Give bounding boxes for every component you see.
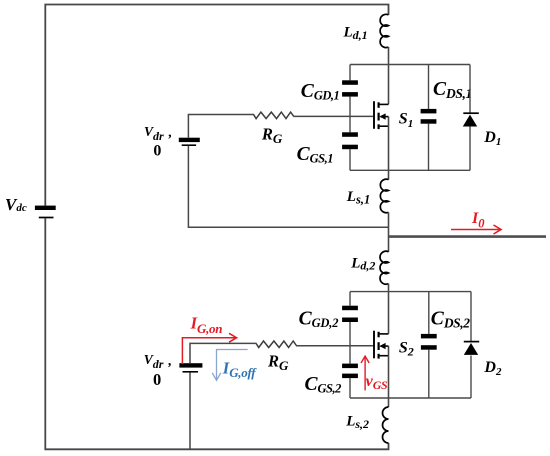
svg-text:IG,on: IG,on xyxy=(190,313,223,336)
svg-text:CGS,1: CGS,1 xyxy=(297,144,333,166)
wire: Vdr2 negative return to bottom rail xyxy=(189,373,191,450)
svg-text:’: ’ xyxy=(167,133,172,148)
svg-text:’: ’ xyxy=(167,361,172,376)
capacitor CDS,1 xyxy=(421,109,437,124)
svg-text:CDS,2: CDS,2 xyxy=(431,308,470,330)
resistor RG (upper) xyxy=(254,112,294,119)
wire: Ld,1 to S1 drain xyxy=(388,47,390,104)
gate driver source Vdr,0 (lower) xyxy=(179,363,202,372)
node: S1 cell bottom rail xyxy=(350,169,470,171)
capacitor CGD,2 xyxy=(342,306,358,322)
inductor Ld,1 xyxy=(380,14,388,47)
svg-text:0: 0 xyxy=(153,370,161,389)
wire: S2 gate branch left edge xyxy=(349,292,351,398)
transistor S1 xyxy=(374,101,389,129)
wire: Ld,2 to S2 drain xyxy=(388,284,390,334)
diode D2 branch wires xyxy=(470,292,472,398)
svg-text:D1: D1 xyxy=(483,129,501,148)
wire: output node to right edge xyxy=(389,235,547,238)
svg-text:0: 0 xyxy=(153,143,161,160)
wire: left rail below Vdc to bottom rail to Ls,2 bottom xyxy=(45,218,388,449)
transistor S2 xyxy=(374,331,389,359)
diode D1 xyxy=(463,113,479,126)
svg-text:CGS,2: CGS,2 xyxy=(305,374,342,396)
capacitor CGS,1 xyxy=(342,132,358,149)
diode D2 xyxy=(464,342,479,355)
wire: Vdr1 negative return to Ls,1 bottom node xyxy=(188,146,388,227)
svg-text:RG: RG xyxy=(267,351,289,372)
svg-text:Ld,2: Ld,2 xyxy=(350,255,375,272)
current arrow IG,off xyxy=(212,350,248,381)
wire: S1 gate branch left edge xyxy=(349,65,351,171)
wire: RG to S2 gate xyxy=(296,345,374,347)
svg-text:I0: I0 xyxy=(471,210,485,231)
diode D1 branch wires xyxy=(469,65,471,171)
capacitor CDS,2 branch wires xyxy=(428,292,430,398)
svg-text:RG: RG xyxy=(261,125,283,146)
capacitor CGS,2 xyxy=(342,364,358,379)
wire: S2 source/body down through bottom rail to Ls,2 xyxy=(388,346,390,407)
node: S1 cell top rail xyxy=(350,64,470,66)
svg-text:CGD,1: CGD,1 xyxy=(301,81,339,103)
gate driver source Vdr,0 (upper) xyxy=(179,138,200,146)
svg-text:Vdr: Vdr xyxy=(144,352,164,371)
wire: RG to S1 gate xyxy=(294,115,375,117)
wire: S1 source/body down through bottom rail to Ls,1 xyxy=(388,117,390,180)
current arrow I0 xyxy=(451,225,501,234)
dc source Vdc xyxy=(35,206,56,218)
current arrow IG,on xyxy=(182,333,236,364)
wire: top rail from Vdc to Ld,1 xyxy=(45,5,388,206)
inductor Ld,2 xyxy=(380,251,388,284)
svg-text:Ls,2: Ls,2 xyxy=(345,414,369,431)
node: S2 cell top rail xyxy=(350,291,471,293)
svg-text:vGS: vGS xyxy=(366,373,388,392)
svg-text:Ls,1: Ls,1 xyxy=(346,189,370,206)
inductor Ls,1 xyxy=(380,179,388,213)
resistor RG (lower) xyxy=(256,341,296,348)
svg-text:Vdc: Vdc xyxy=(5,195,27,214)
capacitor CDS,2 xyxy=(421,334,437,350)
svg-text:S2: S2 xyxy=(399,339,414,358)
wire: Vdr1 positive to resistor RG xyxy=(188,115,254,138)
svg-text:IG,off: IG,off xyxy=(222,358,257,380)
voltage arrow vGS xyxy=(361,356,369,390)
capacitor CDS,1 branch wires xyxy=(428,65,430,171)
capacitor CGD,1 xyxy=(342,80,358,96)
svg-text:Vdr: Vdr xyxy=(144,124,164,143)
inductor Ls,2 xyxy=(382,407,388,443)
svg-text:Ld,1: Ld,1 xyxy=(343,25,368,42)
svg-text:S1: S1 xyxy=(399,111,413,130)
svg-text:D2: D2 xyxy=(483,359,502,378)
wire: Vdr2 positive to resistor RG xyxy=(190,343,257,363)
wire: Ls,1 to mid node and down to Ld,2 xyxy=(388,212,390,251)
svg-text:CGD,2: CGD,2 xyxy=(299,309,339,331)
node: S2 cell bottom rail xyxy=(350,397,471,399)
svg-text:CDS,1: CDS,1 xyxy=(433,79,472,101)
